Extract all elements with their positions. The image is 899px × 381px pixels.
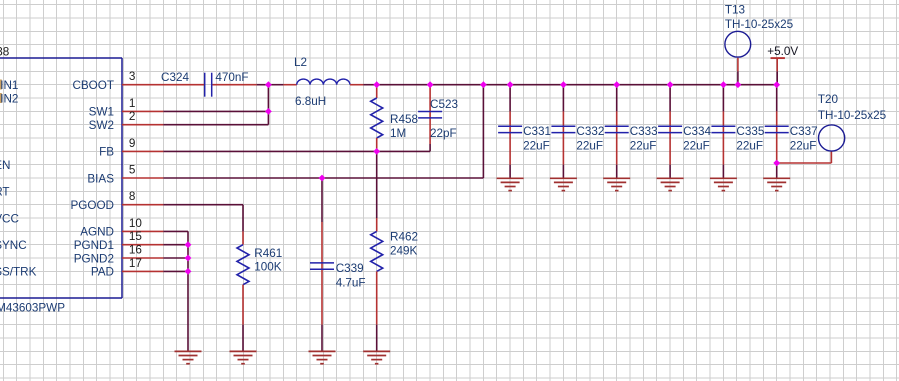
svg-text:L2: L2	[294, 56, 307, 69]
svg-text:AGND: AGND	[80, 226, 114, 239]
svg-text:TH-10-25x25: TH-10-25x25	[725, 18, 794, 31]
svg-text:EN: EN	[0, 159, 10, 172]
svg-text:6.8uH: 6.8uH	[295, 95, 326, 108]
svg-text:+5.0V: +5.0V	[767, 45, 798, 58]
svg-text:PGOOD: PGOOD	[70, 199, 114, 212]
svg-text:R462: R462	[390, 231, 418, 244]
svg-text:15: 15	[129, 230, 143, 243]
svg-text:VCC: VCC	[0, 212, 19, 225]
svg-text:T20: T20	[818, 93, 839, 106]
svg-text:470nF: 470nF	[215, 71, 248, 84]
svg-text:T13: T13	[725, 4, 745, 17]
svg-text:22uF: 22uF	[523, 140, 550, 153]
svg-text:5: 5	[129, 164, 136, 177]
svg-text:C332: C332	[576, 125, 604, 138]
svg-text:22uF: 22uF	[630, 140, 657, 153]
svg-text:PGND2: PGND2	[74, 252, 114, 265]
svg-text:C337: C337	[790, 125, 818, 138]
svg-text:38: 38	[0, 46, 9, 59]
svg-text:22uF: 22uF	[576, 140, 603, 153]
svg-text:9: 9	[129, 137, 136, 150]
svg-text:TH-10-25x25: TH-10-25x25	[818, 109, 887, 122]
svg-text:C324: C324	[161, 71, 189, 84]
svg-text:C335: C335	[736, 125, 764, 138]
svg-text:C331: C331	[523, 125, 551, 138]
svg-text:R458: R458	[390, 113, 418, 126]
svg-text:FB: FB	[99, 146, 114, 159]
svg-text:1M: 1M	[390, 127, 406, 140]
svg-text:22uF: 22uF	[683, 140, 710, 153]
svg-text:1: 1	[129, 97, 136, 110]
svg-text:4.7uF: 4.7uF	[336, 277, 366, 290]
svg-text:3: 3	[129, 70, 136, 83]
svg-text:22pF: 22pF	[430, 127, 457, 140]
svg-text:17: 17	[129, 257, 142, 270]
svg-text:SW2: SW2	[89, 119, 114, 132]
svg-text:10: 10	[129, 217, 143, 230]
svg-text:SW1: SW1	[89, 106, 114, 119]
svg-text:C334: C334	[683, 125, 711, 138]
svg-text:VIN2: VIN2	[0, 92, 18, 105]
svg-text:PAD: PAD	[91, 266, 114, 279]
svg-text:C523: C523	[430, 98, 458, 111]
svg-text:SS/TRK: SS/TRK	[0, 266, 37, 279]
svg-text:249K: 249K	[390, 245, 418, 258]
svg-text:SYNC: SYNC	[0, 239, 27, 252]
svg-text:BIAS: BIAS	[87, 172, 114, 185]
svg-text:22uF: 22uF	[790, 140, 817, 153]
svg-text:22uF: 22uF	[736, 140, 763, 153]
svg-text:CBOOT: CBOOT	[72, 79, 114, 92]
svg-text:LM43603PWP: LM43603PWP	[0, 302, 65, 315]
svg-text:PGND1: PGND1	[74, 239, 114, 252]
svg-text:RT: RT	[0, 186, 10, 199]
svg-text:16: 16	[129, 244, 142, 257]
svg-text:C333: C333	[630, 125, 658, 138]
svg-text:VIN1: VIN1	[0, 79, 18, 92]
svg-text:8: 8	[129, 190, 136, 203]
svg-text:R461: R461	[254, 247, 282, 260]
svg-text:2: 2	[129, 110, 136, 123]
svg-text:C339: C339	[336, 262, 364, 275]
svg-text:100K: 100K	[254, 261, 282, 274]
